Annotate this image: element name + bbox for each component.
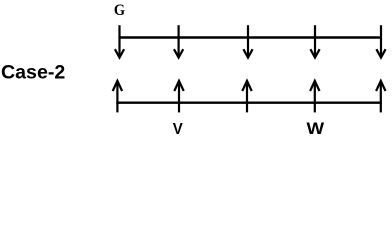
top arrow 3 (down) (243, 25, 252, 57)
bottom arrow 4 (up) (310, 81, 319, 113)
bottom arrow 3 (up) (242, 81, 251, 113)
label V (173, 121, 183, 138)
top arrow 1 (down) (115, 25, 124, 57)
label Case-2 (1, 61, 65, 83)
top arrow 5 (down) (376, 25, 385, 57)
label W (307, 119, 326, 138)
svg-text:W: W (307, 119, 326, 138)
svg-text:V: V (173, 121, 183, 138)
top arrow 2 (down) (174, 25, 183, 57)
label G (114, 2, 126, 19)
bottom arrow 5 (up) (376, 81, 385, 113)
bottom arrow 1 (up) (113, 81, 122, 113)
svg-text:G: G (114, 2, 126, 19)
bottom line (116, 101, 382, 103)
svg-text:Case-2: Case-2 (1, 61, 65, 83)
top arrow 4 (down) (310, 25, 319, 57)
bottom arrow 2 (up) (174, 81, 183, 113)
top line (118, 36, 382, 38)
